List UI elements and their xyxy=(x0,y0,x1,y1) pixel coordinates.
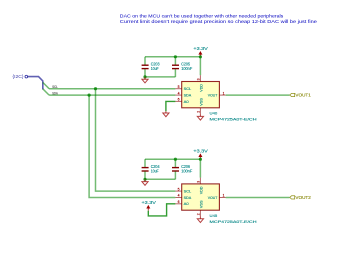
svg-text:5: 5 xyxy=(178,187,180,191)
svg-text:SDA: SDA xyxy=(184,94,192,98)
svg-text:U40: U40 xyxy=(210,111,219,116)
svg-text:2: 2 xyxy=(197,111,201,113)
bus unconnected end circle xyxy=(25,75,28,78)
op-amp U45 xyxy=(175,178,256,224)
junction SDA xyxy=(88,94,91,97)
svg-text:SCL: SCL xyxy=(184,87,192,91)
wire SDA vertical to bottom DAC xyxy=(89,95,175,197)
wire SCL vertical to bottom DAC xyxy=(96,89,176,191)
svg-text:DAC on the MCU can't be used t: DAC on the MCU can't be used together wi… xyxy=(120,13,284,18)
svg-text:5: 5 xyxy=(178,85,180,89)
capacitor C206 xyxy=(172,159,193,179)
svg-text:10uF: 10uF xyxy=(151,66,159,71)
svg-text:{I2C}: {I2C} xyxy=(12,74,24,79)
bus I2C xyxy=(28,77,43,90)
wire A0 to ground top IC xyxy=(166,101,176,111)
junction cap ground bottom xyxy=(143,178,146,181)
svg-text:VOUT1: VOUT1 xyxy=(295,93,311,98)
junction rail +3.3V bottom xyxy=(199,158,202,161)
svg-text:+3.3V: +3.3V xyxy=(142,200,157,206)
svg-text:MCP4725A0T-E/CH: MCP4725A0T-E/CH xyxy=(210,219,257,224)
wire VDD top IC xyxy=(199,57,201,75)
svg-text:VOUT: VOUT xyxy=(208,196,218,200)
svg-text:U45: U45 xyxy=(210,213,219,218)
junction rail C206 xyxy=(174,158,177,161)
svg-text:SDA: SDA xyxy=(184,196,192,200)
op-amp U40 xyxy=(175,75,256,121)
bus entry SDA xyxy=(43,89,49,95)
svg-text:VDD: VDD xyxy=(199,84,203,92)
wire +3.3V rail top xyxy=(145,56,200,58)
svg-text:VOUT2: VOUT2 xyxy=(295,195,311,200)
svg-text:A0: A0 xyxy=(184,202,189,206)
capacitor C204 xyxy=(142,159,160,179)
svg-text:3: 3 xyxy=(197,181,201,183)
svg-text:4: 4 xyxy=(178,194,180,198)
hierarchical label VOUT1 xyxy=(290,93,312,98)
power +3.3V top xyxy=(193,46,208,57)
wire cap bottom rail top section xyxy=(145,76,175,78)
wire VOUT2 xyxy=(226,197,290,199)
wire cap bottom rail bottom section xyxy=(145,178,175,180)
hierarchical label VOUT2 xyxy=(290,195,312,200)
ground at A0 top IC xyxy=(163,111,169,116)
svg-text:SCL: SCL xyxy=(184,190,192,194)
wire SDA top xyxy=(49,94,175,96)
ground under C203 xyxy=(142,77,148,83)
ground under U40 VSS xyxy=(197,114,203,120)
wire SCL top xyxy=(49,88,175,90)
junction rail +3.3V xyxy=(199,55,202,58)
wire VOUT1 xyxy=(226,94,290,96)
svg-text:6: 6 xyxy=(178,98,180,102)
svg-text:MCP4725A0T-E/CH: MCP4725A0T-E/CH xyxy=(210,116,257,121)
svg-text:VOUT: VOUT xyxy=(208,94,218,98)
bus entry SCL xyxy=(43,82,49,88)
svg-text:Current limit doesn't require: Current limit doesn't require great prec… xyxy=(120,19,318,24)
wire VDD bottom IC xyxy=(199,159,201,177)
wire A0 to +3.3V bottom IC xyxy=(148,204,175,216)
capacitor C205 xyxy=(172,57,193,77)
power +3.3V bottom caps xyxy=(193,148,208,159)
svg-text:100nF: 100nF xyxy=(181,66,192,71)
svg-text:VSS: VSS xyxy=(199,98,203,106)
svg-text:6: 6 xyxy=(178,200,180,204)
junction rail C205 xyxy=(174,55,177,58)
svg-text:+3.3V: +3.3V xyxy=(193,148,208,154)
svg-text:10uF: 10uF xyxy=(151,169,159,174)
ground under C204 xyxy=(142,179,148,185)
svg-text:1: 1 xyxy=(223,194,225,198)
svg-text:2: 2 xyxy=(197,213,201,215)
junction SCL xyxy=(94,87,97,90)
power +3.3V at A0 bottom IC xyxy=(142,200,157,211)
svg-text:1: 1 xyxy=(223,91,225,95)
svg-text:VDD: VDD xyxy=(199,186,203,194)
junction cap ground xyxy=(143,75,146,78)
svg-text:100nF: 100nF xyxy=(181,169,192,174)
svg-text:4: 4 xyxy=(178,91,180,95)
svg-text:A0: A0 xyxy=(184,100,189,104)
svg-text:3: 3 xyxy=(197,78,201,80)
svg-text:+3.3V: +3.3V xyxy=(193,46,208,52)
svg-text:VSS: VSS xyxy=(199,200,203,208)
wire +3.3V rail bottom xyxy=(145,158,200,160)
capacitor C203 xyxy=(142,57,160,77)
ground under U45 VSS xyxy=(197,217,203,223)
